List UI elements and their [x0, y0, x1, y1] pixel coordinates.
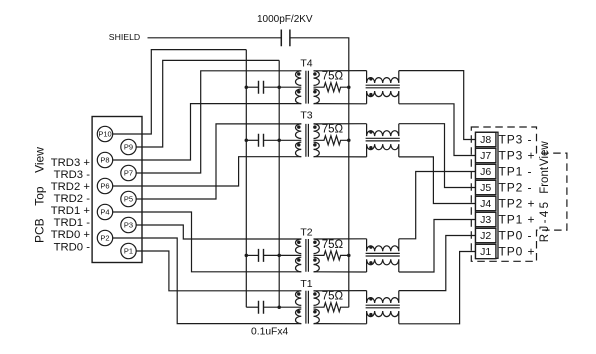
- pin P10: [97, 126, 112, 141]
- svg-text:TRD0 +: TRD0 +: [51, 229, 91, 241]
- wire T4 choke bottom to J7: [399, 104, 476, 156]
- transformer T4 phase dot secondary lower: [313, 90, 317, 94]
- transformer T1 phase dot primary lower: [297, 310, 301, 314]
- svg-text:TRD1 -: TRD1 -: [54, 217, 91, 229]
- choke CMC-T4 phase dot upper: [369, 77, 372, 80]
- wire T1 secondary bottom to choke: [314, 323, 367, 325]
- wire capacitor C-T1 left lead: [246, 306, 258, 308]
- pin J6 box: [476, 164, 496, 178]
- svg-text:P4: P4: [100, 208, 109, 217]
- label PCB Top View (rotated): [33, 147, 47, 243]
- svg-text:75Ω: 75Ω: [322, 71, 344, 83]
- choke CMC-T4 core: [366, 85, 400, 88]
- svg-text:TP3 +: TP3 +: [499, 149, 536, 163]
- choke CMC-T3 core: [366, 138, 400, 141]
- svg-text:TRD0 -: TRD0 -: [54, 241, 91, 253]
- wire T4 choke top to J8: [399, 71, 476, 140]
- junction termination rail row T3: [347, 139, 351, 143]
- transformer T3 phase dot primary upper: [297, 125, 301, 129]
- svg-text:TP1 +: TP1 +: [499, 213, 536, 227]
- resistor R-T2 75ohm: [314, 251, 349, 260]
- svg-text:J8: J8: [480, 134, 491, 146]
- pin P8: [97, 152, 112, 167]
- svg-text:TP0 +: TP0 +: [499, 245, 536, 259]
- label RJ-45 Front View (rotated): [539, 141, 551, 243]
- capacitor C-T1 0.1uF plates: [259, 301, 264, 314]
- choke CMC-T1 phase dot lower: [369, 313, 372, 316]
- pin P4: [97, 204, 112, 219]
- wire capacitor C-T2 right lead to center tap: [264, 254, 302, 256]
- junction rail-B row T1: [277, 305, 281, 309]
- wire center-tap rail vertical: [278, 60, 280, 307]
- svg-text:75Ω: 75Ω: [322, 239, 344, 251]
- svg-text:TRD1 +: TRD1 +: [51, 205, 91, 217]
- choke CMC-T1 phase dot upper: [369, 297, 372, 300]
- pin J1 box: [476, 244, 496, 258]
- wire T3 choke top to J5: [399, 124, 476, 188]
- pin J3 box: [476, 212, 496, 226]
- capacitor 1000pF/2KV plates: [281, 30, 290, 47]
- svg-text:1000pF/2KV: 1000pF/2KV: [257, 14, 313, 25]
- wire P9 to center-tap rail: [136, 60, 279, 147]
- wire capacitor C-T3 left lead: [246, 139, 258, 141]
- wire T3 choke bottom to J4: [399, 157, 476, 204]
- pin J2 box: [476, 228, 496, 242]
- svg-text:P3: P3: [124, 221, 133, 230]
- wire T3 secondary top to choke: [314, 123, 367, 125]
- choke CMC-T2 phase dot upper: [369, 245, 372, 248]
- junction rail-B row T3: [277, 139, 281, 143]
- transformer T4 core: [306, 71, 309, 104]
- transformer T3 phase dot primary lower: [297, 143, 301, 147]
- svg-text:TRD3 +: TRD3 +: [51, 157, 91, 169]
- svg-text:RJ-45: RJ-45: [539, 200, 551, 243]
- svg-text:PCB: PCB: [33, 218, 47, 243]
- transformer T2 phase dot secondary upper: [313, 240, 317, 244]
- pin P9: [121, 139, 136, 154]
- pin J8 box: [476, 132, 496, 146]
- choke CMC-T2 core: [366, 253, 400, 256]
- svg-text:TP2 -: TP2 -: [499, 181, 533, 195]
- wire T2 secondary bottom to choke: [314, 271, 367, 273]
- choke CMC-T2 lower winding: [367, 259, 399, 272]
- transformer T1 phase dot primary upper: [297, 292, 301, 296]
- svg-text:P1: P1: [124, 247, 133, 256]
- connector RJ-45 outer body: [476, 132, 499, 258]
- svg-text:Top: Top: [33, 186, 47, 206]
- choke CMC-T3 upper winding: [367, 124, 399, 136]
- wire capacitor C-T4 right lead to center tap: [264, 86, 302, 88]
- resistor R-T4 75ohm: [314, 83, 349, 92]
- svg-text:T3: T3: [300, 109, 312, 121]
- choke CMC-T3 phase dot lower: [369, 146, 372, 149]
- wire T4 secondary bottom to choke: [314, 103, 367, 105]
- choke CMC-T4 phase dot lower: [369, 93, 372, 96]
- pin P2: [97, 230, 112, 245]
- svg-text:75Ω: 75Ω: [322, 124, 344, 136]
- transformer T2 core: [306, 239, 309, 272]
- svg-text:TP1 -: TP1 -: [499, 165, 533, 179]
- pin P3: [121, 217, 136, 232]
- svg-text:J1: J1: [480, 246, 491, 258]
- svg-text:View: View: [33, 147, 47, 173]
- junction rail-B row T4: [277, 85, 281, 89]
- svg-text:TP0 -: TP0 -: [499, 229, 533, 243]
- pin P1: [121, 243, 136, 258]
- wire P7 to T4 primary top: [136, 71, 301, 173]
- junction termination rail row T2: [347, 254, 351, 258]
- choke CMC-T3 phase dot upper: [369, 130, 372, 133]
- svg-text:P5: P5: [124, 195, 133, 204]
- wire P3 to T2 primary top: [136, 225, 301, 239]
- capacitor C-T3 0.1uF plates: [259, 134, 264, 147]
- transformer T4 phase dot primary lower: [297, 90, 301, 94]
- wire P10 to cap common rail: [113, 50, 247, 134]
- resistor R-T1 75ohm: [314, 303, 349, 312]
- transformer T3 windings: [295, 124, 319, 157]
- svg-text:P10: P10: [98, 130, 111, 139]
- choke CMC-T2 upper winding: [367, 239, 399, 251]
- transformer T2 phase dot secondary lower: [313, 258, 317, 262]
- junction rail-A row T4: [245, 85, 249, 89]
- svg-text:TRD2 +: TRD2 +: [51, 181, 91, 193]
- wire T4 secondary top to choke: [314, 70, 367, 72]
- wire cap common rail vertical: [245, 50, 247, 308]
- svg-text:J4: J4: [480, 198, 491, 210]
- wire T2 choke bottom to J3: [399, 220, 476, 273]
- wire capacitor C-T2 left lead: [246, 254, 258, 256]
- choke CMC-T1 lower winding: [367, 311, 399, 324]
- wire capacitor C-T4 left lead: [246, 86, 258, 88]
- pin J4 box: [476, 196, 496, 210]
- transformer T1 phase dot secondary upper: [313, 292, 317, 296]
- svg-text:J6: J6: [480, 166, 491, 178]
- svg-text:T1: T1: [300, 278, 312, 290]
- wire P4 to T2 primary bottom: [113, 212, 302, 272]
- wire SHIELD to cap: [148, 37, 282, 39]
- svg-text:P2: P2: [100, 234, 109, 243]
- pin J5 box: [476, 180, 496, 194]
- svg-text:TP2 +: TP2 +: [499, 197, 536, 211]
- wire cap to termination rail: [290, 38, 349, 307]
- svg-text:SHIELD: SHIELD: [109, 32, 140, 42]
- transformer T3 core: [306, 124, 309, 157]
- wire capacitor C-T1 right lead to center tap: [264, 306, 302, 308]
- pin P7: [121, 165, 136, 180]
- wire P6 to T3 primary bottom: [113, 157, 302, 186]
- junction termination rail row T4: [347, 85, 351, 89]
- choke CMC-T4 upper winding: [367, 71, 399, 83]
- svg-text:75Ω: 75Ω: [322, 291, 344, 303]
- choke CMC-T2 phase dot lower: [369, 261, 372, 264]
- choke CMC-T1 core: [366, 305, 400, 308]
- svg-text:J7: J7: [480, 150, 491, 162]
- svg-text:P8: P8: [100, 156, 109, 165]
- svg-text:P6: P6: [100, 182, 109, 191]
- connector P1-P10 PCB body: [92, 117, 142, 263]
- wire P1 to T1 primary top: [136, 251, 301, 291]
- transformer T1 windings: [295, 291, 319, 324]
- svg-text:P7: P7: [124, 169, 133, 178]
- pin J7 box: [476, 148, 496, 162]
- transformer T1 core: [306, 291, 309, 324]
- transformer T4 windings: [296, 71, 320, 104]
- svg-text:TRD2 -: TRD2 -: [54, 193, 91, 205]
- transformer T2 phase dot primary lower: [297, 258, 301, 262]
- wire T2 secondary top to choke: [314, 238, 367, 240]
- wire P2 to T1 primary bottom: [113, 238, 302, 324]
- wire T1 secondary top to choke: [314, 290, 367, 292]
- transformer T2 phase dot primary upper: [297, 240, 301, 244]
- svg-text:T4: T4: [300, 58, 312, 70]
- svg-text:J3: J3: [480, 214, 491, 226]
- transformer T4 phase dot primary upper: [297, 72, 301, 76]
- choke CMC-T4 lower winding: [367, 91, 399, 104]
- wire T3 secondary bottom to choke: [314, 156, 367, 158]
- svg-text:Front: Front: [539, 166, 551, 194]
- transformer T3 phase dot secondary lower: [313, 143, 317, 147]
- wire P5 to T3 primary top: [136, 124, 301, 199]
- wire P8 to T4 primary bottom: [113, 104, 302, 160]
- transformer T1 phase dot secondary lower: [313, 310, 317, 314]
- svg-text:T2: T2: [300, 227, 312, 239]
- junction rail-A row T3: [245, 139, 249, 143]
- svg-text:TRD3 -: TRD3 -: [54, 169, 91, 181]
- capacitor C-T4 0.1uF plates: [259, 81, 264, 94]
- wire T2 choke top to J6: [399, 172, 476, 239]
- svg-text:J2: J2: [480, 230, 491, 242]
- svg-text:P9: P9: [124, 143, 133, 152]
- svg-text:J5: J5: [480, 182, 491, 194]
- wire T1 choke bottom to J1: [399, 252, 476, 324]
- svg-text:TP3 -: TP3 -: [499, 133, 533, 147]
- choke CMC-T1 upper winding: [367, 291, 399, 303]
- junction rail-A row T2: [245, 254, 249, 258]
- resistor R-T3 75ohm: [314, 136, 349, 145]
- svg-text:View: View: [539, 141, 551, 166]
- pin P5: [121, 191, 136, 206]
- choke CMC-T3 lower winding: [367, 144, 399, 157]
- junction rail-B row T2: [277, 254, 281, 258]
- svg-text:0.1uFx4: 0.1uFx4: [251, 327, 288, 338]
- RJ-45 front view dashed outline: [471, 127, 567, 261]
- wire T1 choke top to J2: [399, 236, 476, 291]
- transformer T3 phase dot secondary upper: [313, 125, 317, 129]
- transformer T4 phase dot secondary upper: [313, 72, 317, 76]
- capacitor C-T2 0.1uF plates: [259, 249, 264, 262]
- wire capacitor C-T3 right lead to center tap: [264, 139, 302, 141]
- transformer T2 windings: [295, 239, 319, 272]
- pin P6: [97, 178, 112, 193]
